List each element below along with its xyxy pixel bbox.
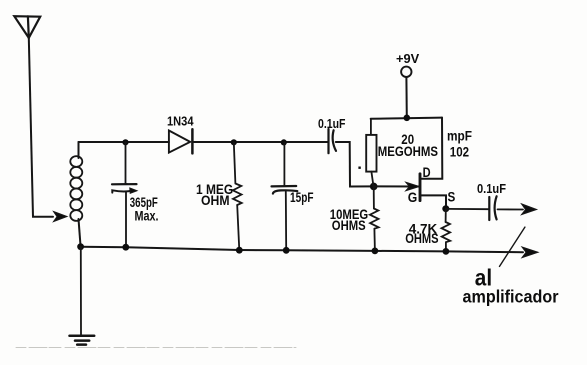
- resistor R4 4.7K OHMS: [442, 209, 451, 252]
- capacitor C4 0.1uF output: [489, 196, 496, 220]
- resistor R3 10MEG OHMS: [370, 186, 379, 251]
- svg-text:+9V: +9V: [396, 52, 420, 66]
- resistor R2 20 MEGOHMS: [366, 119, 376, 187]
- node: varcap bottom: [122, 244, 129, 251]
- antenna: [14, 16, 40, 38]
- svg-text:amplificador: amplificador: [463, 286, 559, 306]
- diode D1 1N34: [169, 129, 193, 153]
- svg-text:0.1uF: 0.1uF: [477, 181, 506, 196]
- node: 10MEG bottom: [372, 248, 379, 255]
- node: gate junction: [370, 183, 378, 191]
- label pointer slash: [500, 227, 525, 266]
- scan artifact line: [16, 347, 296, 349]
- svg-text:102: 102: [450, 145, 470, 160]
- wire ground lead: [80, 247, 82, 335]
- transistor Q1 FET: [374, 174, 446, 209]
- svg-text:OHMS: OHMS: [405, 231, 438, 246]
- node: 15pF top: [281, 139, 287, 145]
- svg-text:1N34: 1N34: [167, 114, 194, 129]
- wire varcap branch: [125, 142, 127, 183]
- wire top rail: [79, 141, 169, 143]
- svg-text:D: D: [423, 164, 431, 180]
- svg-text:G: G: [408, 189, 418, 205]
- svg-text:OHMS: OHMS: [332, 218, 366, 233]
- node: coil / varcap junction: [122, 139, 128, 145]
- node: 1MEG bottom: [236, 247, 243, 254]
- node: source junction: [442, 205, 449, 212]
- node: 4.7K bottom: [443, 248, 450, 255]
- resistor R1 1 MEG OHM: [233, 142, 242, 250]
- wire supply rail: [371, 118, 442, 119]
- wire antenna lead: [29, 38, 53, 217]
- node: 1MEG top: [231, 139, 237, 145]
- ground: [70, 336, 95, 345]
- node: coil bottom: [77, 243, 84, 250]
- wire bottom rail: [81, 247, 523, 253]
- node: 15pF bottom: [283, 247, 290, 254]
- svg-text:OHM: OHM: [201, 193, 230, 208]
- node: supply junction: [404, 115, 411, 122]
- svg-text:MEGOHMS: MEGOHMS: [378, 144, 438, 159]
- wire output top: [498, 208, 524, 210]
- antenna feed arrow: [54, 212, 68, 222]
- output arrow top: [522, 204, 537, 215]
- svg-text:15pF: 15pF: [290, 190, 314, 205]
- wire from C3 to gate node: [336, 142, 374, 187]
- capacitor C2 15pF: [272, 142, 298, 250]
- wire drain branch: [421, 118, 443, 179]
- power +9V terminal: [401, 67, 411, 118]
- output arrow bottom: [522, 247, 538, 258]
- capacitor C1 365pF variable: [112, 184, 137, 247]
- inductor L1: [70, 142, 82, 247]
- wire source to output cap: [446, 208, 489, 210]
- svg-text:0.1uF: 0.1uF: [318, 116, 346, 131]
- svg-text:S: S: [448, 188, 456, 204]
- capacitor C3 0.1uF coupling: [329, 129, 337, 153]
- svg-text:Max.: Max.: [135, 209, 159, 224]
- stray dot mark: [358, 167, 360, 169]
- svg-text:mpF: mpF: [447, 128, 472, 143]
- wire top rail segment 2: [192, 141, 328, 143]
